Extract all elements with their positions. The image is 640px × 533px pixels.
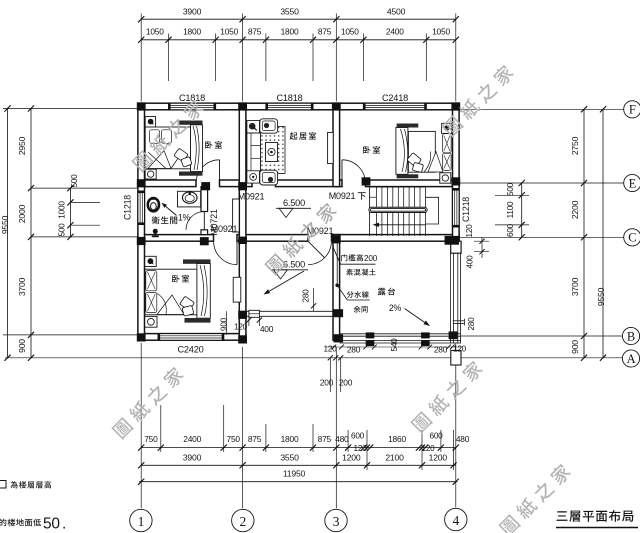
svg-text:600: 600 [351, 432, 365, 441]
living room coffee table [266, 143, 278, 162]
svg-text:500: 500 [58, 223, 67, 237]
svg-text:C1818: C1818 [276, 93, 302, 103]
dim 280 balcony parapet [302, 288, 317, 311]
svg-text:1100: 1100 [506, 201, 515, 218]
svg-text:3: 3 [333, 514, 340, 529]
room label terrace [378, 288, 395, 296]
extension lines bottom [161, 405, 454, 470]
bedroom-1 chair [174, 148, 192, 167]
window C2418 right [363, 103, 427, 110]
svg-text:400: 400 [260, 324, 274, 334]
water-parting line note [335, 244, 369, 313]
svg-text:1050: 1050 [432, 27, 450, 37]
wall axis-2 [239, 103, 246, 340]
svg-text:875: 875 [318, 27, 332, 37]
svg-text:2750: 2750 [570, 136, 580, 155]
columns axis E [137, 177, 460, 190]
svg-text:750: 750 [144, 434, 158, 444]
svg-text:M0721: M0721 [209, 209, 219, 236]
svg-text:3700: 3700 [570, 277, 580, 296]
svg-text:875: 875 [318, 434, 332, 444]
room label living room [290, 132, 316, 140]
svg-text:9550: 9550 [0, 215, 10, 234]
label door M0721 [209, 209, 219, 236]
living room corner table south [247, 171, 260, 183]
columns axis B [137, 331, 458, 343]
svg-text:600: 600 [506, 223, 515, 237]
dimension sub-chain left 500/1000/500 [58, 174, 101, 240]
svg-text:480: 480 [456, 434, 470, 444]
svg-text:2%: 2% [389, 303, 402, 313]
window C2420 [158, 334, 225, 341]
toilet [148, 198, 159, 211]
note plain concrete [346, 269, 375, 276]
svg-text:120: 120 [465, 224, 474, 238]
bedroom-2 canopy bar north [397, 124, 419, 128]
dim 120 right wall [465, 224, 474, 238]
svg-text:C1218: C1218 [461, 197, 471, 222]
svg-text:875: 875 [248, 27, 262, 37]
svg-text:480: 480 [335, 434, 349, 444]
svg-text:C1218: C1218 [123, 195, 133, 220]
bedroom-3 bed [145, 269, 197, 315]
room label bedroom-2 [363, 146, 380, 153]
svg-text:3900: 3900 [183, 7, 202, 17]
bedroom-1 bed [145, 127, 190, 169]
svg-text:280: 280 [347, 345, 361, 355]
window C1218 right wall [453, 188, 460, 228]
watermark 4 [111, 365, 186, 440]
watermark 6 [498, 462, 573, 533]
balcony parapet axis2-axis3 [246, 310, 333, 317]
note: floor 50 lower [0, 516, 66, 533]
label door M0921 terrace [307, 226, 334, 236]
svg-text:200: 200 [320, 378, 334, 388]
note: storey height [0, 481, 51, 489]
room label bedroom-1 [205, 141, 222, 148]
label window C2420 [177, 345, 203, 355]
door M0921 terrace [308, 241, 331, 264]
wall axis-E [138, 180, 459, 187]
svg-text:540: 540 [390, 338, 399, 352]
living room rug (dotted) [260, 127, 286, 174]
wall axis-3 upper (F-E) [333, 103, 340, 186]
room label bedroom-3 [172, 275, 189, 282]
door M0921 bedroom-1 [196, 160, 219, 183]
svg-text:E: E [629, 176, 637, 190]
label door M0921 living [238, 192, 265, 202]
axis line E right + circle E [460, 174, 640, 191]
balcony slope arrow [264, 271, 305, 295]
svg-text:1200: 1200 [429, 452, 448, 462]
dimension chain right 2750/2200/3700/900 [570, 106, 587, 361]
floor drain [152, 229, 159, 237]
dimension row top-1 (3900/3550/4500) [138, 7, 459, 23]
title: third floor plan layout [556, 510, 638, 527]
svg-text:900: 900 [570, 340, 580, 354]
living room corner table north [247, 121, 260, 134]
svg-text:2100: 2100 [385, 452, 404, 462]
bedroom-3 nightstand north [145, 256, 156, 266]
svg-text:1050: 1050 [220, 27, 238, 37]
svg-text:3550: 3550 [280, 7, 299, 17]
svg-text:900: 900 [17, 339, 27, 353]
svg-text:.: . [62, 516, 66, 533]
svg-text:875: 875 [248, 434, 262, 444]
bedroom-3 canopy bar north [183, 259, 211, 263]
room label bathroom [152, 216, 178, 224]
dimension line right 9550 [596, 106, 606, 361]
svg-text:C2418: C2418 [382, 93, 408, 103]
bedroom-2 nightstand north [442, 123, 452, 133]
door M0921 bedroom-3 (bottom-left) [214, 241, 237, 264]
svg-text:3700: 3700 [17, 277, 27, 296]
svg-text:11950: 11950 [283, 468, 306, 478]
drain spout right terrace [453, 319, 465, 326]
wash basin [178, 191, 201, 207]
dims 200/200 below axis-3 [320, 355, 353, 392]
svg-text:1800: 1800 [281, 27, 299, 37]
grid tick lines left [3, 109, 138, 335]
dim 280 right railing [467, 317, 476, 331]
svg-text:3550: 3550 [280, 452, 299, 462]
label window C1218 left [123, 195, 133, 220]
wall axis-1 left [138, 103, 145, 340]
svg-text:2400: 2400 [183, 434, 201, 444]
svg-text:C: C [628, 231, 636, 245]
living room armchair north [260, 119, 278, 133]
columns axis F [137, 102, 460, 110]
bedroom-3 chair [180, 296, 195, 316]
wall axis-B (bedroom 3 south) [138, 334, 246, 341]
svg-text:1050: 1050 [146, 27, 164, 37]
label window C1218 right [461, 197, 471, 222]
svg-text:1: 1 [138, 514, 145, 529]
bedroom-2 bed [408, 131, 443, 172]
svg-text:C2420: C2420 [177, 345, 203, 355]
slope label 1% with arrow [162, 203, 191, 223]
bedroom-2 pillows east [443, 134, 452, 171]
svg-text:2400: 2400 [386, 27, 404, 37]
stair direction arrow [373, 223, 426, 227]
window C1218 left wall [138, 191, 145, 226]
svg-text:1%: 1% [178, 213, 191, 223]
svg-text:2: 2 [240, 514, 247, 529]
bedroom-1 canopy bar bottom [179, 172, 203, 176]
watermark 2 [441, 63, 516, 138]
columns balcony parapet [238, 309, 343, 319]
dims terrace south 120/280/540/280/120 [323, 338, 466, 355]
svg-text:1200: 1200 [342, 452, 361, 462]
living room flue shaft [328, 132, 334, 163]
svg-text:2200: 2200 [570, 200, 580, 219]
label window C1818 middle [276, 93, 302, 103]
wall axis-C [138, 235, 459, 242]
bathroom east wall [201, 187, 208, 235]
stair flight [370, 187, 426, 236]
label window C2418 [382, 93, 408, 103]
bedroom-3 canopy bar south [185, 318, 211, 323]
level mark 6.500 balcony [272, 260, 308, 280]
svg-text:3900: 3900 [183, 452, 202, 462]
bedroom-2 chair [407, 153, 424, 173]
svg-text:B: B [627, 329, 635, 343]
svg-text:A: A [627, 352, 636, 366]
svg-text:6.500: 6.500 [283, 198, 305, 208]
corridor duct at axis-2 [233, 199, 240, 232]
bedroom-2 canopy bar south [397, 174, 419, 178]
svg-text:1800: 1800 [281, 434, 299, 444]
stairwell opening outline [426, 197, 439, 224]
wall axis-F top [138, 103, 459, 110]
dimension row bottom-3 (11950) [138, 468, 459, 485]
level mark 6.500 hall [276, 198, 311, 218]
door M0921 bedroom-2 (top-right) [342, 160, 365, 183]
columns axis C [137, 235, 459, 245]
watermark 3 [264, 201, 339, 276]
axis circle 4 [445, 508, 467, 530]
svg-text:1050: 1050 [341, 27, 359, 37]
bedroom-3 nightstand south [145, 316, 157, 327]
window C1818 middle [265, 103, 313, 110]
bedroom-1 wardrobe curtain [191, 125, 203, 172]
svg-text:500: 500 [506, 182, 515, 196]
wall axis-3 lower (C-B) [333, 235, 340, 341]
bedroom-1 nightstand B [145, 169, 156, 179]
svg-text:50: 50 [43, 516, 60, 533]
dim 900/120/400 below bedroom-3 [220, 311, 274, 335]
door M0921 living room [252, 160, 275, 183]
svg-text:120: 120 [234, 323, 248, 332]
svg-text:200: 200 [364, 254, 378, 263]
door M0721 bathroom [186, 212, 204, 230]
svg-text:M0921: M0921 [238, 192, 265, 202]
hall flue shaft [233, 277, 241, 302]
dimension row bottom-1 [138, 432, 470, 453]
svg-text:120: 120 [453, 345, 467, 354]
watermark 1 [131, 98, 206, 173]
dimension chain left 9550 [0, 105, 11, 361]
label door M0921 bedroom-2 + down [329, 191, 366, 201]
svg-text:750: 750 [227, 434, 241, 444]
terrace slope 2% with arrow [389, 303, 430, 326]
svg-text:1000: 1000 [58, 201, 67, 219]
label door M0921 corridor [211, 224, 238, 234]
svg-text:M0921: M0921 [329, 191, 356, 201]
dimension sub-chain right 500/1100/600 [495, 180, 529, 241]
grid extension lines top [141, 14, 456, 102]
terrace parapet south (double rail) [340, 334, 461, 343]
dimension row top-2 (1050/1800/...) [138, 27, 459, 43]
svg-text:1800: 1800 [183, 27, 201, 37]
svg-text:F: F [629, 103, 636, 117]
columns terrace parapet [366, 332, 430, 346]
svg-text:2000: 2000 [17, 204, 27, 223]
axis extension to bottom circles [141, 343, 456, 508]
pier below C on axis-4 [451, 241, 461, 253]
label window C1818 left [179, 93, 205, 103]
axis circle 2 [232, 509, 254, 531]
svg-text:900: 900 [220, 317, 229, 331]
dim 400 right wall [466, 237, 490, 268]
wall axis-4 (F-C) [453, 103, 460, 241]
axis line A + circle A [5, 350, 640, 367]
axis line C right + circle C [460, 229, 640, 246]
svg-text:280: 280 [434, 345, 448, 355]
pier below B on axis-4 [451, 350, 461, 365]
axis circle 1 [130, 509, 152, 531]
terrace railing east [451, 253, 461, 343]
living room armchair south [260, 170, 278, 185]
axis line F right + circle F [460, 101, 640, 118]
bedroom-3 curtain east [197, 264, 210, 319]
svg-text:1860: 1860 [388, 434, 406, 444]
bedroom-2 curtain west [396, 128, 408, 175]
svg-text:500: 500 [70, 174, 79, 188]
window C1818 left [168, 103, 216, 110]
watermark 5 [410, 359, 485, 434]
dimension row bottom-2 (3900/3550/1200/2100/1200) [138, 452, 457, 468]
dimension chain left 2950/2000/3700/900 [17, 105, 34, 361]
stair handrail [369, 207, 427, 212]
bedroom-1 nightstand A [145, 117, 155, 128]
svg-text:C1818: C1818 [179, 93, 205, 103]
svg-text:4: 4 [453, 513, 460, 528]
svg-text:280: 280 [467, 317, 476, 331]
callout door sill 200 [333, 247, 378, 264]
svg-text:2950: 2950 [17, 136, 27, 155]
svg-text:9550: 9550 [596, 287, 606, 306]
axis line B right + circle B [461, 327, 640, 344]
bedroom-1 canopy bar top [178, 121, 203, 125]
svg-text:4500: 4500 [387, 7, 406, 17]
svg-text:400: 400 [466, 255, 475, 269]
living room sofa west [247, 133, 261, 171]
svg-text:280: 280 [302, 289, 311, 303]
axis circle 3 [325, 509, 347, 531]
bedroom-2 nightstand south [440, 173, 451, 183]
